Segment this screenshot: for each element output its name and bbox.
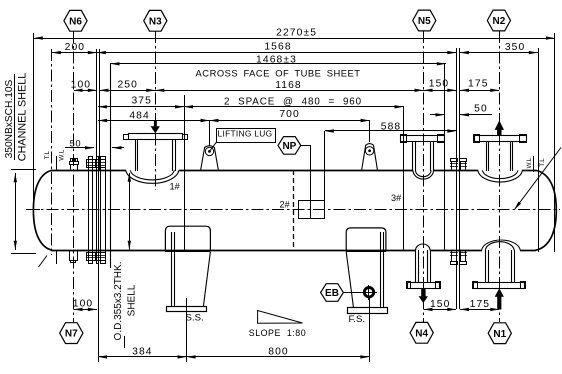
svg-text:N5: N5 bbox=[418, 16, 431, 27]
svg-text:T.L: T.L bbox=[44, 151, 51, 160]
svg-text:150: 150 bbox=[429, 79, 449, 90]
svg-text:ACROSS FACE OF TUBE SHEET: ACROSS FACE OF TUBE SHEET bbox=[196, 68, 361, 79]
svg-text:O.D.355x3.2THK.: O.D.355x3.2THK. bbox=[113, 262, 124, 341]
svg-text:EB: EB bbox=[325, 288, 339, 299]
svg-text:2#: 2# bbox=[280, 199, 291, 209]
svg-text:175: 175 bbox=[468, 79, 488, 90]
svg-text:350: 350 bbox=[505, 42, 525, 53]
svg-text:50: 50 bbox=[70, 139, 82, 149]
svg-text:484: 484 bbox=[129, 110, 149, 121]
svg-text:1468±3: 1468±3 bbox=[256, 54, 297, 65]
svg-text:3#: 3# bbox=[391, 193, 402, 203]
svg-text:N2: N2 bbox=[493, 16, 506, 27]
svg-text:384: 384 bbox=[132, 346, 152, 357]
svg-text:SHELL: SHELL bbox=[127, 284, 138, 316]
svg-text:W.L: W.L bbox=[526, 157, 533, 168]
svg-text:375: 375 bbox=[131, 96, 151, 107]
svg-text:350NBxSCH.10S: 350NBxSCH.10S bbox=[4, 79, 15, 158]
svg-text:800: 800 bbox=[268, 346, 288, 357]
svg-text:SLOPE 1:80: SLOPE 1:80 bbox=[249, 328, 306, 338]
svg-text:1568: 1568 bbox=[264, 41, 291, 52]
svg-text:588: 588 bbox=[381, 121, 401, 132]
svg-text:F.S.: F.S. bbox=[349, 314, 366, 325]
svg-text:1168: 1168 bbox=[275, 80, 302, 91]
svg-text:100: 100 bbox=[71, 80, 91, 91]
svg-text:CHANNEL SHELL: CHANNEL SHELL bbox=[17, 73, 29, 161]
svg-text:175: 175 bbox=[470, 299, 490, 310]
svg-text:N3: N3 bbox=[149, 16, 162, 27]
svg-text:N4: N4 bbox=[415, 328, 428, 339]
svg-text:N7: N7 bbox=[65, 329, 78, 340]
svg-text:N6: N6 bbox=[69, 16, 82, 27]
svg-text:2 SPACE @ 480 = 960: 2 SPACE @ 480 = 960 bbox=[224, 97, 362, 108]
svg-text:700: 700 bbox=[279, 109, 299, 120]
svg-text:N1: N1 bbox=[493, 329, 506, 340]
svg-text:200: 200 bbox=[65, 42, 85, 53]
svg-text:LIFTING LUG: LIFTING LUG bbox=[218, 128, 273, 138]
svg-text:150: 150 bbox=[430, 299, 450, 310]
svg-text:1#: 1# bbox=[170, 182, 181, 192]
svg-text:250: 250 bbox=[117, 80, 137, 91]
svg-text:T.L: T.L bbox=[539, 158, 546, 167]
svg-text:S.S.: S.S. bbox=[186, 313, 204, 324]
svg-text:2270±5: 2270±5 bbox=[276, 27, 317, 38]
svg-text:100: 100 bbox=[73, 298, 93, 309]
svg-text:NP: NP bbox=[282, 141, 296, 152]
svg-text:50: 50 bbox=[474, 103, 488, 114]
svg-text:W.L: W.L bbox=[59, 149, 66, 160]
